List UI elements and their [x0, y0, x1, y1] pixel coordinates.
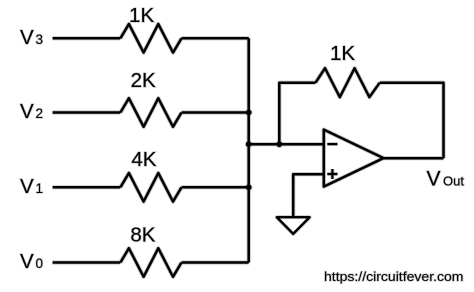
- wire V2 lead: [53, 111, 121, 114]
- svg-text:4K: 4K: [131, 148, 156, 171]
- wire R2 to bus: [182, 111, 249, 114]
- svg-text:8K: 8K: [130, 224, 155, 247]
- svg-text:1K: 1K: [129, 4, 154, 27]
- svg-text:Out: Out: [443, 174, 464, 189]
- junction dot bus inverting line: [246, 141, 252, 147]
- wire R3 to bus: [182, 37, 249, 40]
- svg-text:V: V: [427, 167, 441, 190]
- wire bus to inverting input: [249, 143, 324, 146]
- ground symbol: [277, 217, 310, 234]
- op-amp plus sign: [327, 169, 337, 179]
- junction dot feedback riser: [276, 141, 282, 147]
- wire summing bus: [247, 38, 250, 262]
- wire V0 lead: [53, 261, 121, 264]
- junction dot bus row2: [246, 110, 252, 116]
- resistor R1 4K: [120, 173, 181, 202]
- resistor Rf 1K feedback: [316, 68, 380, 97]
- wire ground to non-inverting input: [293, 174, 324, 217]
- wire R1 to bus: [182, 186, 249, 189]
- svg-text:2K: 2K: [131, 69, 156, 92]
- wire V1 lead: [53, 186, 121, 189]
- resistor R2 2K: [120, 98, 181, 127]
- resistor R3 1K: [120, 24, 181, 53]
- op-amp U1: [324, 130, 384, 187]
- wire feedback top to output: [380, 83, 444, 159]
- svg-text:1K: 1K: [330, 42, 355, 65]
- svg-text:https://circuitfever.com: https://circuitfever.com: [324, 269, 464, 284]
- junction dot bus row3: [246, 184, 252, 190]
- wire feedback riser: [279, 83, 315, 145]
- wire V3 lead: [53, 37, 121, 40]
- resistor R0 8K: [120, 248, 181, 277]
- wire op-amp output: [384, 157, 444, 160]
- wire R0 to bus: [182, 261, 249, 264]
- op-amp minus sign: [327, 143, 337, 145]
